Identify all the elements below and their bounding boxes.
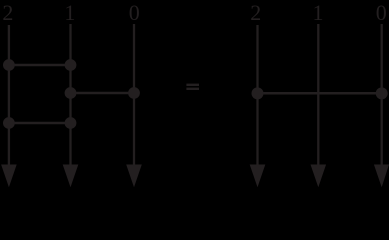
wire: swap rung 3 between wires 2 and 1 <box>9 122 71 125</box>
svg-text:0: 0 <box>129 0 140 25</box>
equals sign <box>186 84 199 86</box>
node: dot on wire 2, rung 3 <box>3 117 15 129</box>
wire 1 (right network, vertical) <box>317 24 319 168</box>
wire 0 (left network, vertical) <box>133 24 135 168</box>
wire 1 (left network, vertical) <box>69 24 71 168</box>
arrowhead wire 1 (right network) <box>311 165 327 188</box>
svg-text:2: 2 <box>2 0 13 25</box>
svg-text:2: 2 <box>250 0 261 25</box>
node: dot on wire 2, rung 1 <box>3 59 15 71</box>
node: dot on wire 1, rung 3 <box>65 117 77 129</box>
arrowhead wire 2 (left network) <box>1 165 17 188</box>
wire 2 (right network, vertical) <box>256 25 258 168</box>
node: dot on wire 0, rung 2 <box>128 87 140 99</box>
arrowhead wire 2 (right network) <box>250 165 266 188</box>
wire: swap rung between wires 2 and 0 (crosses wire 1) <box>258 92 382 95</box>
wire 2 (left network, vertical) <box>8 25 10 168</box>
svg-text:0: 0 <box>376 0 387 25</box>
arrowhead wire 1 (left network) <box>63 165 79 188</box>
node: dot on wire 2 (right network) <box>252 87 264 99</box>
wire: swap rung 1 between wires 2 and 1 <box>9 64 71 67</box>
wire: swap rung 2 between wires 1 and 0 <box>71 92 135 95</box>
svg-text:1: 1 <box>64 0 75 25</box>
arrowhead wire 0 (left network) <box>126 165 142 188</box>
node: dot on wire 1, rung 1 <box>65 59 77 71</box>
svg-text:1: 1 <box>313 0 324 25</box>
wire 0 (right network, vertical) <box>381 24 383 168</box>
node: dot on wire 1, rung 2 <box>65 87 77 99</box>
node: dot on wire 0 (right network) <box>376 87 388 99</box>
arrowhead wire 0 (right network) <box>374 165 389 188</box>
